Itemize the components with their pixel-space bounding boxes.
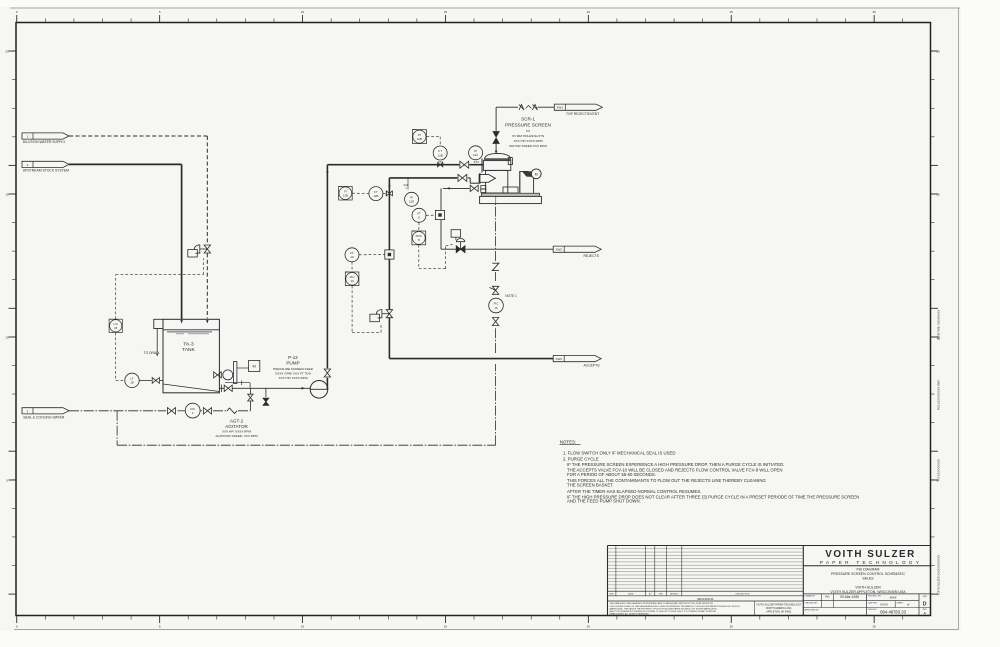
vent valve (closed) (493, 132, 499, 144)
svg-text:AND THE FEED PUMP SHUT DOWN.: AND THE FEED PUMP SHUT DOWN. (567, 498, 641, 503)
seal water branch to screen (bottom loop) (117, 204, 496, 445)
svg-text:25: 25 (730, 10, 734, 14)
svg-text:CAD FILE: CAD FILE (868, 601, 878, 604)
signal FT-10 to meter (359, 254, 385, 256)
svg-text:2. PURGE CYCLE: 2. PURGE CYCLE (563, 456, 599, 461)
svg-text:XXX HP/ XXXX RPM: XXX HP/ XXXX RPM (513, 139, 542, 143)
svg-text:APPLETON, WI 54911: APPLETON, WI 54911 (766, 610, 792, 613)
svg-text:XXXX GPM/ XXX FT TDH: XXXX GPM/ XXX FT TDH (275, 371, 311, 375)
level transmitter LT-18 (125, 373, 139, 387)
svg-text:CHECKED BY: CHECKED BY (805, 603, 819, 605)
valve at tank outlet (222, 385, 233, 393)
flow ratio controller FFIC-8 (412, 231, 426, 245)
svg-text:30: 30 (872, 625, 876, 629)
pump discharge riser (thick) (326, 165, 328, 382)
svg-text:15: 15 (937, 192, 941, 196)
screen feed line (thick) (326, 165, 483, 173)
svg-text:15: 15 (444, 10, 448, 14)
line break symbol (492, 263, 499, 270)
svg-text:TOP REJECTS/VENT: TOP REJECTS/VENT (566, 112, 599, 116)
svg-text:TO DRAIN: TO DRAIN (144, 351, 160, 355)
tank TK-3 (154, 319, 220, 393)
svg-text:D: D (923, 601, 927, 607)
svg-text:10: 10 (350, 279, 354, 283)
svg-text:REVISIONS: REVISIONS (697, 597, 713, 601)
svg-text:AGITATOR: AGITATOR (225, 424, 248, 429)
magnetic flow meter on rejects (435, 210, 444, 219)
magnetic flow meter on accepts (385, 250, 394, 259)
svg-text:AGT-2: AGT-2 (230, 418, 244, 423)
flow transmitter FT-10 (345, 248, 359, 262)
screen base (480, 193, 542, 203)
pump label (273, 355, 314, 380)
screen rejects line (441, 187, 470, 249)
svg-text:TK-3: TK-3 (183, 341, 194, 347)
signal FT-8 to FFIC-8 (418, 222, 420, 231)
valve on rejects outlet (470, 185, 478, 191)
svg-text:1. FLOW SWITCH ONLY IF MECHANI: 1. FLOW SWITCH ONLY IF MECHANICAL SEAL I… (563, 451, 675, 456)
rejects line to flag (441, 248, 553, 250)
svg-text:PRESSURE SCREEN FEED: PRESSURE SCREEN FEED (273, 367, 314, 371)
svg-text:XXX HP/ XXXX RPM: XXX HP/ XXXX RPM (222, 430, 251, 434)
screen accepts line (thick) (388, 178, 479, 186)
svg-text:XXX HP/ XXXX RPM: XXX HP/ XXXX RPM (278, 376, 307, 380)
svg-text:P-12: P-12 (288, 355, 298, 360)
top rejects vent line (496, 105, 554, 111)
control valve LV-18 (188, 245, 211, 257)
svg-text:PLT:XXXXXXXXXX: PLT:XXXXXXXXXX (937, 459, 941, 482)
screen label block (505, 117, 551, 148)
pressure indicator PI-12D (405, 192, 419, 206)
drain stub with closed valve (263, 388, 269, 405)
svg-text:XXXX: XXXX (880, 602, 888, 606)
valve on accepts outlet (458, 174, 467, 181)
svg-text:ACCEPTS: ACCEPTS (584, 364, 601, 368)
svg-text:REJECTS: REJECTS (584, 254, 600, 258)
flexible connector (227, 408, 237, 414)
svg-text:XX: XX (526, 129, 530, 133)
svg-text:12B: 12B (438, 153, 443, 157)
PI-12D tap (407, 179, 409, 190)
svg-text:XW3: XW3 (555, 357, 562, 361)
agitator label (215, 418, 258, 438)
check valve on riser (324, 369, 330, 377)
svg-text:XW1: XW1 (557, 106, 564, 110)
svg-text:10: 10 (301, 10, 305, 14)
off-page flag 1 dilution water supply (22, 133, 69, 144)
pressure indicator PI-12C (469, 146, 483, 160)
off-page flag 2 upstream stock system (22, 161, 69, 172)
svg-text:XXX: XXX (473, 160, 479, 164)
svg-text:P&I DIAGRAM: P&I DIAGRAM (857, 568, 880, 572)
LT-18 tank tap (139, 379, 163, 381)
svg-text:CHK: CHK (658, 594, 663, 596)
svg-text:20: 20 (587, 10, 591, 14)
svg-text:DWG NO.: DWG NO. (868, 609, 877, 611)
accepts line to flag (thick) (389, 358, 553, 360)
svg-text:30: 30 (872, 10, 876, 14)
signal PI-12B to FT-12B (426, 137, 440, 146)
svg-text:UPSTREAM STOCK SYSTEM: UPSTREAM STOCK SYSTEM (23, 168, 69, 172)
svg-text:15: 15 (5, 192, 9, 196)
svg-text:REV: REV (610, 594, 615, 596)
off-page flag XW1 top rejects vent (554, 104, 602, 116)
right margin vertical text (937, 310, 941, 596)
svg-text:18: 18 (114, 326, 118, 330)
control valve FCV-10 (370, 310, 393, 322)
svg-text:VOITH SULZER XXXXXXXXXXXX: VOITH SULZER XXXXXXXXXXXX (937, 555, 941, 596)
flow transmitter FT-12B (433, 146, 447, 160)
accepts riser (thick) (388, 178, 390, 359)
svg-text:PUMP: PUMP (286, 361, 299, 366)
svg-text:12D: 12D (409, 200, 414, 204)
svg-text:AND ITS POSSESSION CONFERS NO: AND ITS POSSESSION CONFERS NO LICENSE TO… (610, 610, 717, 613)
svg-text:20: 20 (5, 49, 9, 53)
svg-text:NOTE 1: NOTE 1 (505, 294, 517, 298)
flow indicator FI-16 (489, 298, 504, 313)
svg-text:AVL: AVL (825, 595, 830, 599)
svg-text:XW2: XW2 (555, 248, 562, 252)
svg-text:10: 10 (301, 625, 305, 629)
svg-text:XX MM HOLES/SLOTS: XX MM HOLES/SLOTS (512, 134, 545, 138)
pump P-12 (310, 381, 328, 399)
svg-text:10: 10 (5, 335, 9, 339)
svg-text:DILUTION WATER SUPPLY: DILUTION WATER SUPPLY (23, 140, 66, 144)
svg-text:APPROVED BY: APPROVED BY (805, 608, 820, 611)
svg-text:TANK: TANK (182, 347, 195, 353)
svg-text:DESCRIPTION: DESCRIPTION (736, 594, 750, 596)
upstream stock line (thick) (69, 164, 183, 323)
flow transmitter FT-12B2 (369, 187, 383, 201)
svg-text:20: 20 (587, 625, 591, 629)
svg-text:20: 20 (937, 49, 941, 53)
signal LIC-18 to LV-18 (116, 258, 204, 319)
tank label (182, 341, 195, 353)
svg-text:xxxx: xxxx (889, 596, 897, 600)
svg-text:M: M (253, 364, 256, 369)
svg-text:SEAL & COOLING WATER: SEAL & COOLING WATER (23, 415, 65, 419)
line size label (473, 160, 479, 164)
flow indicator FI-12B (339, 186, 353, 200)
valve after FIC-2 (204, 408, 212, 414)
screen vent riser (495, 107, 497, 150)
svg-text:DISCLOSURE OF ANY OF THE DATA: DISCLOSURE OF ANY OF THE DATA HEREIN DIS… (610, 605, 740, 608)
svg-text:05-Mar-1999: 05-Mar-1999 (840, 595, 859, 599)
signal FFIC-8 to FCV-8 (419, 245, 453, 269)
tank overflow to drain (144, 329, 160, 357)
pressure screen SCR-1 body (479, 153, 533, 195)
svg-text:VOITH SULZER: VOITH SULZER (825, 549, 915, 560)
arrow onto dome (495, 151, 498, 154)
svg-text:SCR-1: SCR-1 (521, 117, 535, 122)
svg-text:DATE: DATE (628, 593, 634, 596)
pump suction line (219, 387, 310, 390)
valve below FI-16 (492, 318, 498, 326)
orifice tag XXX (438, 160, 444, 164)
off-page flag XW3 accepts (553, 356, 601, 368)
dilution water line (dashed) (69, 136, 209, 324)
title block (608, 546, 931, 616)
screen motor M (531, 169, 541, 179)
svg-text:SHEET: SHEET (897, 602, 904, 604)
agitator motor (249, 360, 260, 371)
off-page flag 3 seal and cooling water (22, 408, 69, 420)
valve at LT-18 tap (152, 378, 159, 384)
pressure indicator PI-12B (412, 130, 426, 144)
svg-text:12B: 12B (343, 194, 348, 198)
flow element on feed line (438, 163, 443, 167)
notes text block (560, 439, 860, 503)
valve on feed line (460, 161, 469, 168)
svg-text:12B: 12B (373, 194, 378, 198)
agitator AGT-2 (214, 362, 249, 384)
svg-text:WHATSOEVER. ALL RIGHTS RESERV: WHATSOEVER. ALL RIGHTS RESERVED. (610, 612, 650, 615)
seal water to pump (stub with valve) (248, 388, 253, 401)
svg-text:VOITH SULZER APPLETON, WISCONS: VOITH SULZER APPLETON, WISCONSIN USA (830, 590, 906, 594)
PI-12D tag 020 (404, 183, 409, 190)
svg-text:PRESSURE SCREEN: PRESSURE SCREEN (505, 122, 551, 127)
off-page flag XW2 rejects (553, 246, 601, 258)
svg-text:DATE/TIME: XX/XX/XXXX: DATE/TIME: XX/XX/XXXX (937, 310, 941, 341)
flow element bowtie on riser (386, 191, 392, 197)
svg-text:NOTES:: NOTES: (560, 439, 576, 444)
svg-text:M: M (535, 172, 538, 176)
signal LIC-18 to LT-18 (116, 333, 125, 381)
svg-text:12C: 12C (473, 153, 478, 157)
control valve FCV-8 (451, 230, 465, 253)
signal FI-12B to FT-12B2 (352, 192, 386, 194)
svg-text:SIZE: SIZE (923, 596, 928, 598)
svg-text:PRESSURE SCREEN CONTROL SCHEMA: PRESSURE SCREEN CONTROL SCHEMATIC (831, 572, 906, 576)
flow controller FIC-10 (345, 272, 359, 286)
svg-text:AMERICA INC. THE DATA IS THE P: AMERICA INC. THE DATA IS THE PROPERTY OF… (610, 607, 718, 610)
svg-text:16: 16 (494, 306, 498, 310)
svg-text:THE SCREEN BASKET.: THE SCREEN BASKET. (567, 482, 614, 487)
svg-text:084-48783.33: 084-48783.33 (880, 609, 907, 614)
valve on seal water line (168, 408, 176, 414)
svg-text:10: 10 (350, 255, 354, 259)
signal FT-10 to FIC-10 (351, 262, 353, 272)
flow transmitter FT-8 (412, 208, 426, 222)
svg-text:AGITATOR SPEED: XXX RPM: AGITATOR SPEED: XXX RPM (215, 434, 258, 438)
suction bypass line (225, 381, 250, 389)
svg-text:PROJECT NO.: PROJECT NO. (868, 596, 882, 598)
note 1 label (505, 294, 517, 298)
svg-text:MOTOR SPEED:XXX RPM: MOTOR SPEED:XXX RPM (509, 144, 547, 148)
svg-text:12B: 12B (417, 137, 422, 141)
signal FIC-10 to FCV-10 (352, 286, 381, 333)
svg-text:THE DATA DISCLOSED HEREIN IS P: THE DATA DISCLOSED HEREIN IS PROPRIETARY… (610, 602, 714, 605)
valve below screen (note 1) (490, 286, 499, 294)
flow controller FIC-2 (185, 403, 200, 418)
svg-text:REV APD: REV APD (670, 593, 679, 596)
seal and cooling water line (69, 401, 250, 411)
svg-text:FILE:XXXXXXXXXX.DWG: FILE:XXXXXXXXXX.DWG (937, 380, 941, 411)
svg-text:DRAWN BY: DRAWN BY (805, 595, 816, 598)
svg-text:25: 25 (730, 625, 734, 629)
svg-text:SALES: SALES (862, 576, 874, 580)
svg-text:15: 15 (444, 625, 448, 629)
level controller LIC-18 (109, 319, 122, 332)
svg-text:FOR A PERIOD OF ABOUT 55-60 SE: FOR A PERIOD OF ABOUT 55-60 SECONDS. (567, 472, 656, 477)
signal FT-8 to meter (426, 214, 435, 216)
svg-text:18: 18 (130, 381, 134, 385)
svg-text:PAPER TECHNOLOGY: PAPER TECHNOLOGY (820, 560, 922, 565)
